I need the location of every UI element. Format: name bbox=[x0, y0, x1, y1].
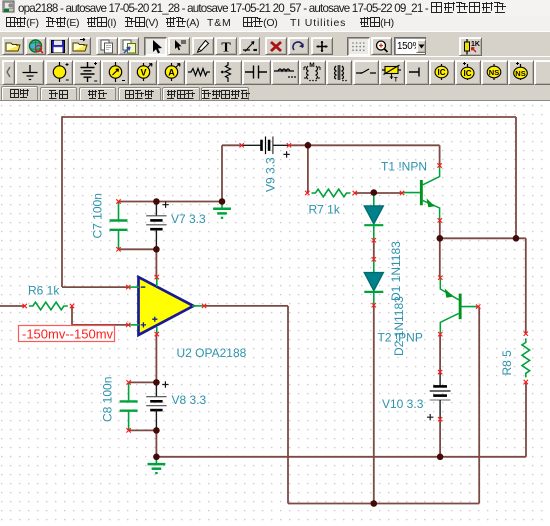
svg-text:-150mv--150mv: -150mv--150mv bbox=[22, 327, 114, 342]
svg-text:C8 100n: C8 100n bbox=[101, 377, 115, 422]
svg-text:NS: NS bbox=[515, 69, 525, 78]
svg-text:V7 3.3: V7 3.3 bbox=[171, 212, 206, 226]
svg-text:U2 OPA2188: U2 OPA2188 bbox=[177, 346, 247, 360]
svg-text:V9 3.3: V9 3.3 bbox=[264, 157, 278, 192]
svg-text:A: A bbox=[168, 68, 175, 78]
svg-text:R8 5: R8 5 bbox=[500, 350, 514, 376]
svg-text:IC: IC bbox=[437, 68, 445, 77]
svg-text:D2 1N1183: D2 1N1183 bbox=[392, 296, 406, 356]
svg-text:V: V bbox=[140, 68, 146, 78]
svg-text:T: T bbox=[222, 40, 232, 55]
svg-text:R7 1k: R7 1k bbox=[309, 203, 341, 217]
svg-text:NS: NS bbox=[489, 68, 499, 77]
svg-text:R6 1k: R6 1k bbox=[28, 284, 60, 298]
svg-text:IC: IC bbox=[464, 69, 472, 78]
svg-text:V8 3.3: V8 3.3 bbox=[172, 393, 207, 407]
svg-text:V10 3.3: V10 3.3 bbox=[382, 397, 424, 411]
svg-text:D1 1N1183: D1 1N1183 bbox=[389, 241, 403, 301]
svg-text:M: M bbox=[309, 62, 314, 69]
svg-text:1K: 1K bbox=[471, 41, 480, 48]
svg-text:T1 !NPN: T1 !NPN bbox=[381, 160, 427, 174]
svg-text:T: T bbox=[394, 78, 398, 84]
svg-text:C7 100n: C7 100n bbox=[91, 193, 105, 238]
